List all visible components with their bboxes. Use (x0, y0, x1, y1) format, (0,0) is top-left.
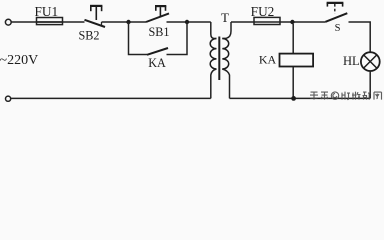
svg-text:T: T (221, 10, 229, 25)
svg-text:KA: KA (259, 53, 277, 67)
transformer secondary winding + leads (222, 22, 231, 98)
svg-text:FU1: FU1 (34, 4, 58, 19)
node A (126, 20, 130, 24)
relay coil KA (280, 24, 314, 98)
wire secondary top rail (T to switch S, through node C) (231, 21, 326, 23)
svg-text:HL: HL (343, 54, 360, 68)
fuse FU2 (254, 17, 280, 24)
wire SB2 to SB1 (through node A) (102, 21, 147, 23)
node C (290, 20, 294, 24)
KA auxiliary contact branch (parallel with SB1) (129, 22, 188, 55)
transformer T primary lead + winding (210, 22, 216, 98)
wire top rail left (terminal to SB2) (11, 21, 84, 23)
node D (291, 96, 296, 101)
node B (185, 20, 189, 24)
svg-text:FU2: FU2 (251, 4, 275, 19)
watermark 头条@机械知网 (drawn as glyph blobs) (310, 92, 382, 100)
fuse FU1 (37, 18, 63, 25)
bottom rail left (primary circuit) (11, 97, 211, 99)
terminal X2 bottom-left (6, 96, 11, 101)
wire S to lamp corner (349, 22, 371, 52)
lamp HL (361, 52, 380, 71)
switch S (326, 3, 348, 22)
wire SB1 to transformer corner (through node B) (167, 21, 211, 23)
svg-text:SB1: SB1 (148, 25, 169, 39)
transformer core (218, 37, 220, 81)
svg-text:KA: KA (148, 56, 166, 70)
wire lamp bottom (369, 71, 371, 99)
bottom rail right (secondary circuit) (230, 97, 371, 99)
svg-text:SB2: SB2 (78, 28, 99, 42)
svg-text:S: S (335, 23, 341, 34)
terminal X1 top-left (5, 19, 11, 25)
pushbutton SB2 (NC) (85, 6, 106, 27)
svg-text:~220V: ~220V (0, 53, 38, 68)
pushbutton SB1 (NO) (146, 6, 169, 22)
